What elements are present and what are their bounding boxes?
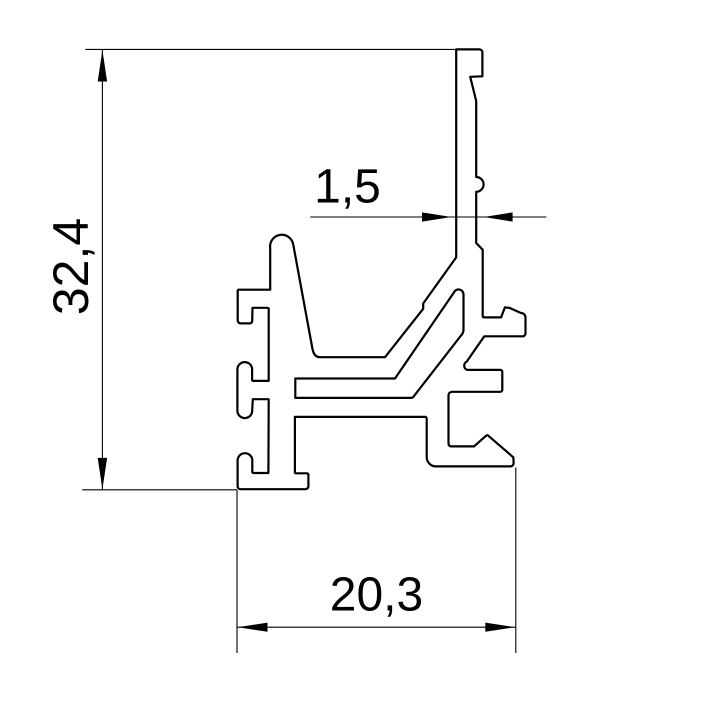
- dimension 20,3: left extension line: [236, 490, 238, 653]
- dimension 32,4: top extension line: [85, 48, 456, 50]
- dimension 1,5: horizontal dimension line: [310, 216, 546, 218]
- svg-text:1,5: 1,5: [314, 161, 381, 214]
- dimension 1,5: left arrow: [422, 212, 452, 221]
- svg-text:32,4: 32,4: [43, 218, 99, 315]
- dimension 20,3: horizontal dimension line: [237, 626, 515, 628]
- svg-text:20,3: 20,3: [330, 569, 423, 622]
- dimension 20,3: right arrow: [485, 623, 515, 632]
- dimension 32,4: vertical dimension line: [101, 50, 103, 490]
- dimension 32,4: top arrow: [98, 50, 107, 82]
- dimension 32,4: bottom arrow: [98, 458, 107, 490]
- dimension 32,4: bottom extension line: [82, 489, 237, 491]
- profile main outline: [237, 49, 525, 489]
- dimension 20,3: right extension line: [515, 468, 517, 654]
- profile diagonal wall + middle tongue (separate closed contour): [295, 289, 463, 397]
- dimension 1,5: right arrow: [484, 212, 513, 221]
- dimension 20,3: left arrow: [238, 623, 268, 632]
